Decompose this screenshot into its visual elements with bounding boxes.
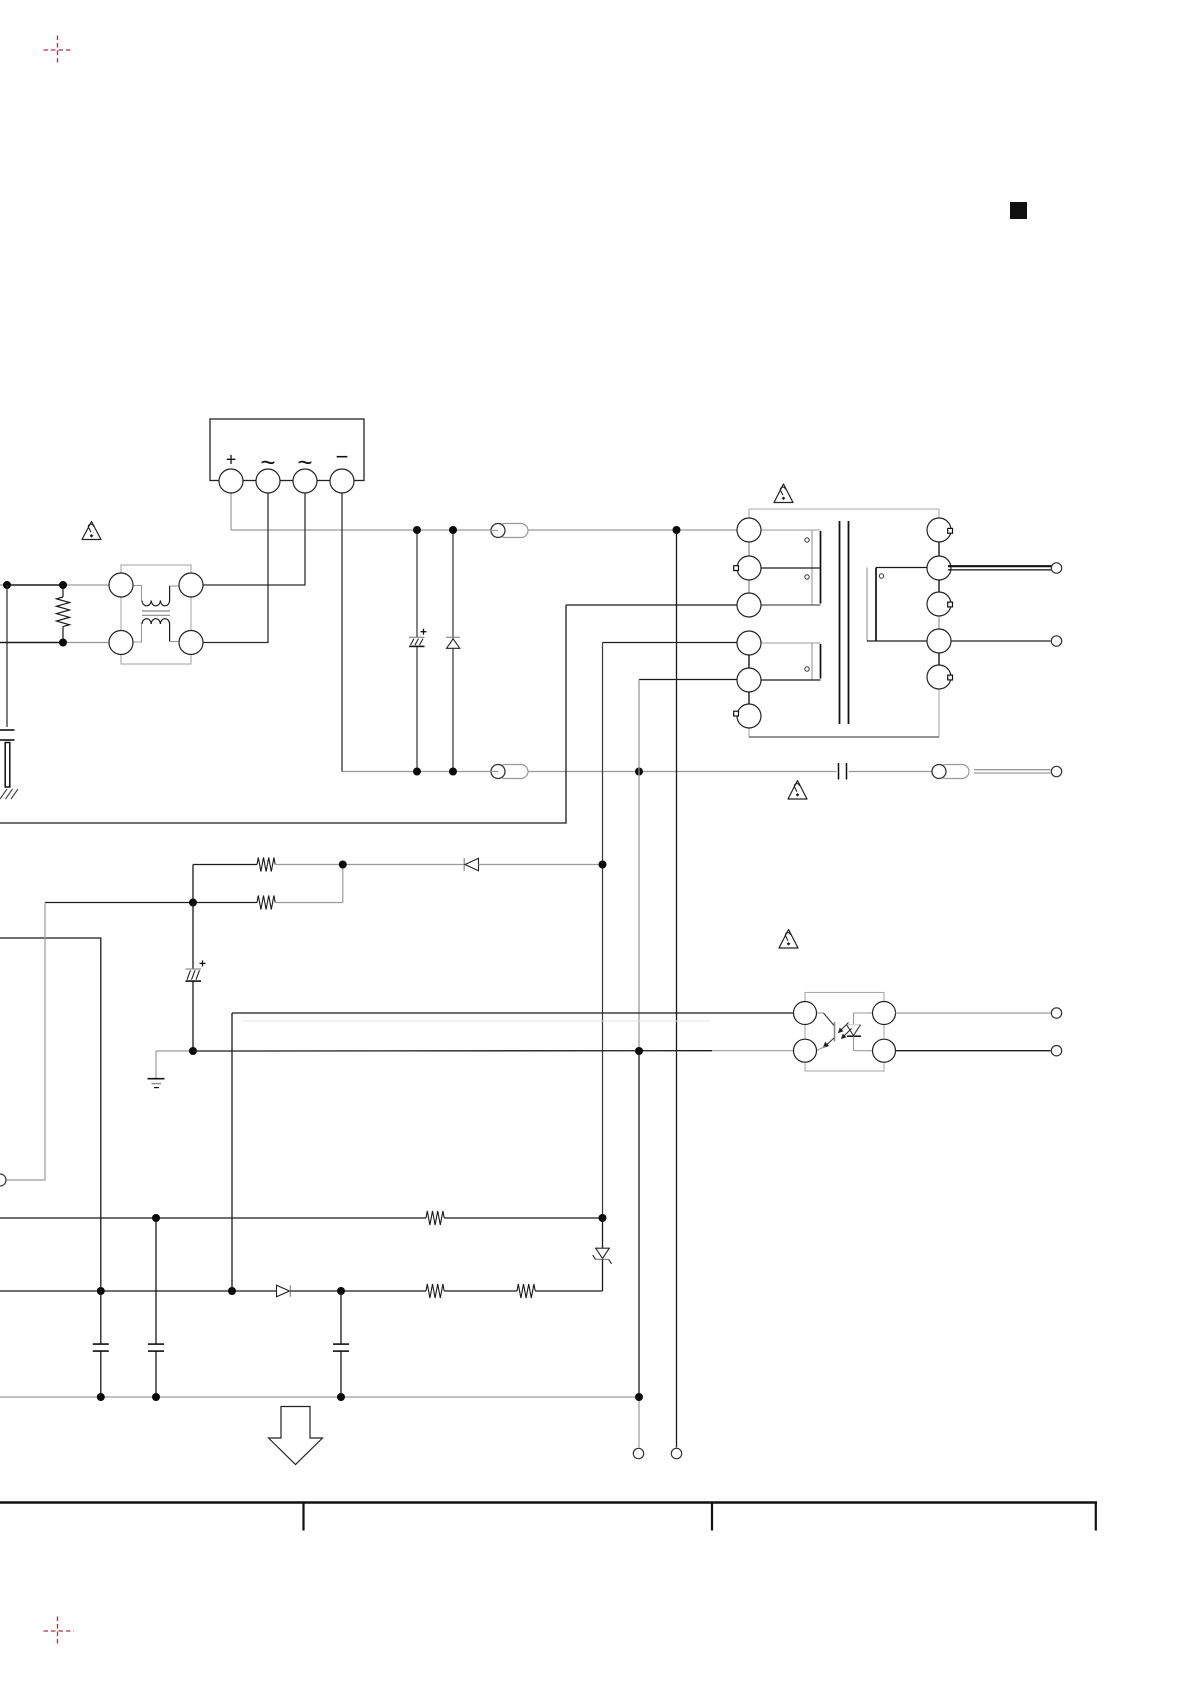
wire y=1218 with resistor R21 [0,1211,603,1225]
wire transformer pin5 to x=639 [639,679,738,681]
line filter winding top [133,586,179,606]
IC block (left, cut by page edge) [0,938,101,1291]
net vertical x=676.5 [676,530,678,1448]
page marker black square [1010,202,1027,219]
wire y=1291 with diode D21 and resistors R22 R23 [0,1284,603,1298]
resistor (across line, vertical at x=63) [57,585,70,643]
line filter pin circles [109,573,203,655]
Y-capacitor on bottom rail (x=842) [839,763,847,780]
terminal circle (secondary out 1) [1051,563,1061,573]
optocoupler phototransistor [816,1013,835,1051]
wire line to chassis cap [6,585,8,727]
chassis ground hatch [0,789,18,799]
wire bottom rail y=771 (bridge - side) [342,771,933,773]
secondary single output wire (pin R4) [951,640,1051,642]
transformer primary winding 1 (pins1-3) [761,530,821,605]
wire transformer pin3 to x=566 [566,604,738,606]
optocoupler light arrows [841,1023,852,1037]
registration mark top-left [44,36,74,65]
fusible element bar to chassis [5,743,10,788]
transformer primary winding 2 (pins4-5) [761,643,821,680]
optocoupler LED [847,1013,873,1051]
resistor R11 (y=864.5) [193,858,343,872]
node dots y=1291 [97,1287,345,1295]
wire y=1013 to optocoupler [232,1012,794,1014]
transformer T901 outer frame [749,509,939,737]
bridge rectifier D901 box [210,419,364,481]
registration mark bottom-left [44,1617,75,1646]
optocoupler output wires and terminals [896,1012,1051,1014]
node dot x=639 on y=1051 [635,1047,643,1055]
wire bridge ~ lead to filter (y=585) [203,493,305,585]
svg-text:−: − [336,444,349,469]
fuse F1 on top rail [491,524,529,538]
section divider bracket (bottom) [0,1502,1097,1531]
optocoupler PC901 box [805,993,884,1072]
net vertical x=639 [638,680,640,1052]
AC line input wire y=642 [0,642,63,644]
bridge terminal labels [226,444,349,477]
warning triangle (below bottom rail) [788,781,807,800]
transformer left pin circles [737,518,761,728]
net vertical x=232 (opto to y=1291) [231,1013,233,1291]
wire y=1051 to optocoupler [193,1050,712,1052]
capacitor C22 (x=156) [148,1218,164,1397]
secondary twin output wire (pin R2) [948,565,1052,567]
capacitor line-to-ground [0,730,15,740]
ground rail y=1397 [0,1396,639,1398]
faint guide line y=1021 [243,1020,710,1022]
transformer secondary winding (right) [867,568,927,642]
clamp diode D1 (x=453) [446,530,460,772]
transformer pin polarity squares [734,528,953,716]
node dots (R network) [189,861,607,907]
svg-text:+: + [226,450,237,470]
transformer right pin circles [927,518,951,689]
fuse F2 on bottom rail [491,765,529,779]
wire bridge ~ lead to filter (y=642) [203,493,268,643]
feedback wire x=45 with terminal [6,903,45,1181]
transformer right pin column links [938,530,940,677]
ground symbol (signal ground) [148,1051,194,1088]
zener diode ZD21 (x=602.5) [593,1218,612,1291]
wire transformer pin4 to x=602.5 [603,642,738,644]
line filter winding bottom [133,619,179,642]
capacitor C21 (x=100.8) [93,1291,109,1397]
fuse F3 (bottom right) [932,765,969,779]
terminal circle (bottom right) [1051,766,1061,776]
bridge pin circles [219,469,354,493]
capacitor C23 (x=341) [333,1291,349,1397]
line filter core [142,611,170,615]
node dots y=1397 [97,1393,643,1401]
resistor R12 (y=902.5) [45,865,343,910]
node dot cap C11 bottom [189,1047,197,1055]
warning triangle (above transformer) [774,484,793,503]
AC line input wire y=585 [0,584,8,586]
diode D11 (y=864.5, pointing left) [343,858,603,871]
terminal circle x=676.5 [671,1448,681,1458]
node dots y=1218 [152,1214,607,1222]
warning triangle (above optocoupler) [779,930,798,949]
optocoupler pin circles [794,1002,896,1063]
line filter outer box [121,565,191,664]
wire bridge minus lead down to y=771 [341,493,343,772]
terminal circle (secondary out 2) [1051,636,1061,646]
terminal circle x=639 [633,1448,643,1458]
node junction dots (line input) [3,581,67,647]
transformer left pin column links [748,530,750,605]
electrolytic capacitor C11 (x=193) [186,903,206,1052]
wire top rail y=530 (bridge + to transformer pin1) [231,493,738,530]
transformer core [840,521,849,724]
twin lead to terminal (bottom right) [974,770,1051,773]
warning triangle (left of bridge) [82,522,101,540]
net vertical x=566 and wire y=823 [0,605,566,823]
net vertical x=602.5 [602,643,604,1219]
hollow down arrow [269,1407,323,1465]
smoothing electrolytic capacitor C1 (x=417) [409,530,427,772]
node dots on rails [413,526,681,776]
terminal circle (left edge) [0,1174,6,1186]
